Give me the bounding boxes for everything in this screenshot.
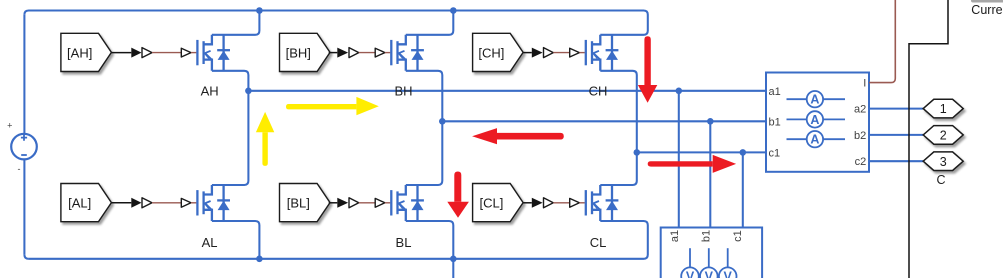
svg-text:a1: a1: [769, 86, 781, 98]
svg-text:b1: b1: [769, 116, 781, 128]
svg-text:b2: b2: [854, 130, 866, 142]
svg-text:V: V: [724, 270, 733, 278]
svg-text:-: -: [18, 164, 21, 174]
wire: phase A line to a1: [248, 90, 766, 92]
svg-text:Curren: Curren: [971, 3, 1003, 17]
svg-text:c1: c1: [769, 147, 781, 159]
wire: AH source down to phase node: [212, 71, 249, 91]
wire: a1 branch down to voltage block: [678, 91, 680, 228]
node: phase B junction: [439, 118, 446, 125]
ammeter A2: [787, 111, 846, 127]
gate drive signal chain for BL: [329, 198, 391, 208]
wire: b1 branch down to voltage block: [709, 121, 711, 227]
svg-text:[CH]: [CH]: [478, 45, 504, 60]
From tag CH: [473, 33, 523, 71]
wire: c1 branch down to voltage block: [742, 152, 744, 227]
wire: AL source down to bottom rail: [212, 221, 260, 259]
wire: phase C node down to CL drain: [600, 152, 637, 185]
wire: c2 to output 3: [869, 160, 923, 162]
node: phase A junction: [245, 88, 252, 95]
svg-text:[AL]: [AL]: [68, 196, 91, 211]
annotation: red arrow right (phase C current): [648, 155, 736, 173]
wire: a2 to output 1: [869, 108, 923, 110]
svg-text:2: 2: [940, 129, 947, 143]
voltmeter V3: [719, 248, 737, 278]
svg-text:1: 1: [940, 102, 947, 116]
MOSFET BH symbol: [391, 35, 424, 71]
svg-text:I: I: [863, 78, 866, 90]
From tag BL: [280, 184, 331, 222]
wire: bottom rail stub below BL junction: [452, 259, 454, 278]
svg-text:BH: BH: [394, 84, 412, 99]
svg-text:CH: CH: [589, 84, 608, 99]
wire: phase B line to b1: [442, 120, 766, 122]
annotation: yellow arrow right (phase A current): [286, 97, 379, 115]
node: phase B voltage tap: [707, 118, 714, 125]
gate drive signal chain for CL: [523, 198, 585, 208]
svg-text:BL: BL: [396, 235, 412, 250]
wire: source positive lead: [23, 15, 25, 134]
ammeter A1: [787, 91, 846, 107]
svg-text:[CL]: [CL]: [479, 196, 503, 211]
svg-text:V: V: [686, 270, 695, 278]
svg-text:CL: CL: [590, 235, 607, 250]
MOSFET CL symbol: [586, 185, 619, 221]
wire: DC+ top rail (with CH drain branch): [24, 11, 647, 35]
node: top rail / BH drain junction: [450, 7, 457, 14]
MOSFET BL symbol: [391, 185, 424, 221]
svg-text:A: A: [810, 93, 819, 107]
svg-text:V: V: [705, 270, 714, 278]
MOSFET AL symbol: [197, 185, 230, 221]
MOSFET CH symbol: [586, 35, 619, 71]
output port 2: [923, 126, 963, 145]
wire: BL source down to bottom rail: [406, 221, 454, 259]
wire: b2 to output 2: [869, 134, 923, 136]
annotation: red arrow down (BL leg current): [447, 172, 469, 218]
annotation: red arrow left (phase B current): [472, 128, 564, 144]
node: bottom rail / AL source junction: [256, 255, 263, 262]
wire: source negative lead: [23, 159, 25, 254]
node: phase C voltage tap: [740, 149, 747, 156]
svg-text:a2: a2: [854, 104, 866, 116]
svg-text:a1: a1: [669, 230, 681, 242]
svg-text:A: A: [810, 133, 819, 147]
From tag AL: [61, 184, 112, 222]
voltage measurement block: [661, 228, 762, 278]
From tag CL: [473, 184, 523, 222]
gate drive signal chain for AL: [111, 198, 196, 208]
wire: AH drain to top rail: [212, 11, 260, 35]
svg-text:b1: b1: [701, 230, 713, 242]
node: phase C junction: [634, 149, 641, 156]
DC voltage source V1: [11, 134, 37, 160]
current measurement block: [766, 73, 869, 172]
output port 1: [923, 99, 963, 118]
svg-text:AL: AL: [202, 235, 218, 250]
MOSFET AH symbol: [197, 35, 230, 71]
svg-text:c1: c1: [732, 230, 744, 242]
voltmeter V1: [681, 248, 699, 278]
node: bottom rail / BL source junction: [450, 255, 457, 262]
wire: phase C line to c1: [637, 151, 766, 153]
svg-text:C: C: [936, 173, 945, 187]
wire: left bottom corner to source: [24, 255, 28, 259]
wire: phase A node down to AL drain: [212, 91, 249, 185]
svg-text:[BH]: [BH]: [286, 45, 311, 60]
wire: phase B node down to BL drain: [406, 121, 443, 185]
wire: BH source down to phase node: [406, 71, 443, 122]
gate drive signal chain for BH: [329, 48, 391, 58]
gate drive signal chain for CH: [523, 48, 585, 58]
wire: DC- bottom rail (with CL source branch): [29, 221, 648, 259]
scope block bottom edge: [971, 0, 1003, 3]
svg-text:3: 3: [940, 155, 947, 169]
svg-text:+: +: [7, 121, 12, 131]
ammeter A3: [787, 131, 846, 147]
svg-text:c2: c2: [855, 156, 867, 168]
svg-text:A: A: [810, 113, 819, 127]
voltmeter V2: [700, 248, 718, 278]
node: phase A voltage tap: [676, 88, 683, 95]
wire: CH source down to phase node: [600, 71, 637, 153]
svg-text:[BL]: [BL]: [287, 196, 310, 211]
node: top rail / AH drain junction: [256, 7, 263, 14]
wire: current signal I to scope: [869, 0, 895, 83]
wire: black signal line: [909, 0, 948, 278]
wire: BH drain to top rail: [406, 11, 454, 35]
output port 3: [923, 152, 963, 171]
svg-text:[AH]: [AH]: [67, 45, 92, 60]
From tag AH: [61, 33, 112, 71]
svg-text:AH: AH: [201, 84, 219, 99]
annotation: red arrow down (CH leg current): [638, 36, 657, 103]
gate drive signal chain for AH: [111, 48, 196, 58]
From tag BH: [280, 33, 331, 71]
annotation: yellow arrow up (leg A current): [256, 112, 274, 166]
